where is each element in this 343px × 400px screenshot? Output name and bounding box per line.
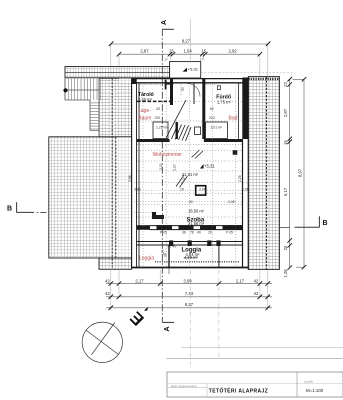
svg-text:15: 15 (169, 49, 174, 54)
svg-text:78: 78 (167, 245, 171, 249)
svg-text:P 05: P 05 (160, 231, 167, 235)
svg-text:2,17: 2,17 (135, 278, 144, 283)
svg-text:TETŐTÉRI ALAPRAJZ: TETŐTÉRI ALAPRAJZ (209, 386, 268, 394)
svg-text:210: 210 (209, 116, 215, 120)
svg-text:82: 82 (157, 107, 161, 111)
svg-text:42: 42 (105, 291, 110, 296)
svg-text:2,26: 2,26 (238, 175, 242, 182)
svg-text:Lage-: Lage- (138, 108, 151, 114)
svg-text:2,92: 2,92 (229, 49, 238, 54)
svg-text:42: 42 (254, 278, 259, 283)
svg-text:Lépték: Lépték (304, 380, 314, 384)
svg-text:Wohnzimmer: Wohnzimmer (153, 152, 183, 158)
svg-text:+5,31: +5,31 (204, 164, 215, 169)
svg-text:17: 17 (164, 58, 168, 62)
svg-text:26: 26 (208, 231, 212, 235)
svg-text:78: 78 (190, 231, 194, 235)
svg-text:82: 82 (210, 107, 214, 111)
svg-text:A: A (161, 20, 168, 25)
svg-text:2,17: 2,17 (236, 278, 245, 283)
svg-text:3,96: 3,96 (199, 188, 206, 192)
svg-text:+5,31: +5,31 (188, 67, 199, 72)
svg-text:8,27: 8,27 (185, 302, 194, 307)
svg-text:3,01 m²: 3,01 m² (211, 126, 223, 130)
svg-text:2,87: 2,87 (140, 49, 149, 54)
svg-text:15: 15 (201, 49, 206, 54)
svg-text:2,40 m²: 2,40 m² (138, 97, 153, 102)
svg-text:Loggia: Loggia (139, 256, 154, 262)
svg-text:5,17: 5,17 (283, 187, 288, 196)
svg-text:8,27: 8,27 (182, 38, 191, 43)
svg-text:17: 17 (200, 58, 204, 62)
svg-text:18,56 m²: 18,56 m² (188, 209, 205, 214)
svg-text:18: 18 (180, 188, 184, 192)
svg-text:22: 22 (283, 82, 288, 87)
svg-text:1,75 m²: 1,75 m² (217, 99, 232, 104)
svg-text:36: 36 (182, 231, 186, 235)
svg-text:1,54: 1,54 (184, 49, 193, 54)
svg-text:21,58 m²: 21,58 m² (188, 221, 205, 226)
svg-text:30: 30 (189, 200, 193, 204)
svg-text:P 05: P 05 (226, 231, 233, 235)
svg-text:220: 220 (155, 116, 161, 120)
svg-text:3,96: 3,96 (128, 175, 132, 182)
svg-text:2,05: 2,05 (228, 200, 235, 204)
svg-text:50: 50 (181, 87, 185, 91)
svg-text:2,20: 2,20 (173, 164, 177, 171)
svg-text:36: 36 (164, 253, 168, 257)
svg-text:2,05: 2,05 (242, 188, 249, 192)
svg-text:20: 20 (283, 245, 288, 250)
svg-text:2,87: 2,87 (283, 108, 288, 117)
svg-text:B: B (7, 205, 12, 212)
svg-text:42: 42 (254, 291, 259, 296)
svg-text:40: 40 (173, 245, 177, 249)
svg-text:15: 15 (283, 140, 288, 145)
svg-text:M=1:100: M=1:100 (306, 388, 324, 393)
svg-text:3,96: 3,96 (134, 188, 141, 192)
svg-text:3,09: 3,09 (183, 278, 192, 283)
svg-text:2,20: 2,20 (159, 163, 163, 170)
svg-text:1,25 m²: 1,25 m² (156, 126, 168, 130)
svg-text:Raum: Raum (138, 116, 151, 122)
svg-text:Bad: Bad (229, 116, 238, 122)
svg-text:A: A (164, 326, 171, 331)
svg-text:Rajz megnevezése: Rajz megnevezése (171, 384, 197, 388)
svg-text:B: B (323, 220, 328, 227)
svg-text:42: 42 (105, 278, 110, 283)
svg-text:21,81 m²: 21,81 m² (182, 172, 199, 177)
svg-text:8,97: 8,97 (298, 168, 303, 177)
svg-text:40: 40 (197, 231, 201, 235)
svg-text:1,28: 1,28 (283, 269, 288, 278)
svg-text:7,43: 7,43 (185, 291, 194, 296)
